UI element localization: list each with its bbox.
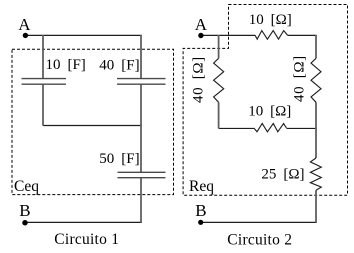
svg-text:Ceq: Ceq	[14, 178, 39, 195]
svg-text:B: B	[195, 201, 206, 220]
svg-text:Circuito 1: Circuito 1	[54, 231, 119, 248]
svg-text:Req: Req	[189, 178, 214, 195]
svg-text:Circuito 2: Circuito 2	[227, 231, 292, 248]
svg-text:A: A	[195, 15, 208, 34]
svg-text:50 [F]: 50 [F]	[99, 151, 139, 167]
svg-text:25 [Ω]: 25 [Ω]	[261, 167, 304, 183]
svg-text:40 [Ω]: 40 [Ω]	[292, 55, 308, 102]
svg-text:40 [Ω]: 40 [Ω]	[191, 56, 207, 103]
svg-text:B: B	[19, 201, 30, 220]
svg-text:40 [F]: 40 [F]	[99, 57, 139, 73]
svg-text:10 [Ω]: 10 [Ω]	[248, 104, 291, 120]
svg-text:10 [F]: 10 [F]	[46, 57, 86, 73]
svg-text:10 [Ω]: 10 [Ω]	[249, 12, 292, 28]
svg-text:A: A	[18, 15, 31, 34]
